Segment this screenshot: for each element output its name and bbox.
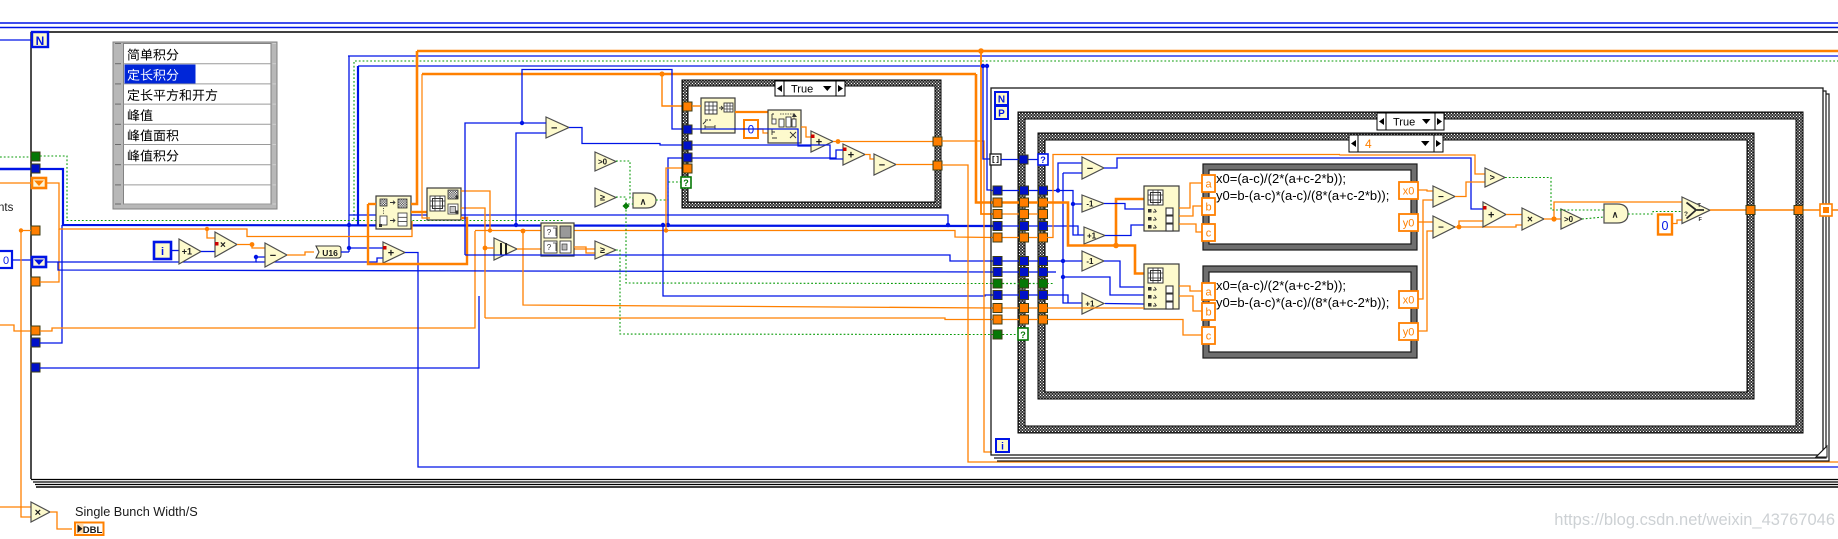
wire green and1 to case tunnel [656, 182, 682, 200]
svg-text:y0: y0 [1403, 327, 1415, 339]
node minus1 b [1082, 251, 1104, 271]
node increment +1 [179, 239, 201, 264]
wire blue r1 [1001, 159, 1038, 161]
junction [666, 223, 670, 227]
listbox item 1 [128, 49, 179, 61]
wire blue sub-r0 out y158 [1104, 158, 1483, 209]
svg-text:0: 0 [3, 255, 9, 267]
wire orange icon1 to c1 [1179, 224, 1202, 232]
icon decimate array [376, 196, 411, 229]
svg-text:?: ? [547, 228, 552, 237]
numeric constant 0 case1 [744, 120, 758, 138]
svg-text:×: × [35, 507, 41, 519]
wire orange tunnel282 up [40, 229, 59, 282]
wire orange subR1 out [1455, 182, 1485, 197]
coercion dot [215, 242, 219, 246]
junction [664, 228, 668, 232]
wire orange outside tunnel229 to multiply [21, 231, 31, 518]
case structure 3 border [1038, 133, 1754, 399]
case structure 1 border [682, 80, 941, 208]
outer while loop left border [30, 32, 32, 479]
iteration terminal i [154, 242, 171, 259]
wire blue v663 y296 [663, 225, 993, 296]
wire blue y215 [349, 215, 948, 225]
junction [1061, 275, 1065, 279]
case structure 3 selector label [1349, 135, 1443, 152]
node add case1 a [811, 131, 833, 152]
svg-text:True: True [791, 83, 813, 95]
wire blue tunnel145 to add-b [692, 145, 843, 159]
node subtract case1 c [874, 154, 896, 175]
svg-text:+: + [816, 136, 822, 148]
svg-text:∧: ∧ [1612, 210, 1619, 220]
wire blue long y270 [46, 262, 993, 272]
case1 selector terminal [681, 177, 691, 188]
wire orange dot up to plus [1459, 221, 1483, 227]
formula2 input b [1202, 303, 1215, 320]
junction [520, 121, 524, 125]
node subtract right2 [1433, 216, 1455, 238]
svg-text:?: ? [1684, 211, 1688, 218]
wire blue r5 internal [1047, 226, 1078, 235]
coercion dot [383, 246, 387, 250]
svg-text:U16: U16 [322, 248, 338, 258]
tunnel row r2 [991, 190, 1047, 192]
tunnel blue case1 in1 [683, 125, 692, 134]
indicator DBL [75, 523, 104, 536]
tunnel orange row331 [31, 326, 40, 335]
wire orange branch icon1 [1116, 199, 1144, 246]
wire blue v522 y70 case feed [522, 70, 683, 130]
wire orange r6 up y154 [1047, 155, 1340, 238]
iteration terminal i while2 [996, 439, 1009, 452]
node select [1682, 197, 1710, 224]
wire orange mid top [422, 73, 976, 76]
wire blue top second [358, 65, 987, 67]
case structure 2 border [1018, 112, 1803, 433]
wire green gte2 y334 [616, 250, 993, 335]
svg-text:N: N [998, 95, 1005, 106]
wire blue y255 long [465, 255, 993, 261]
wire green diamond down y283 [626, 206, 993, 284]
svg-text:0: 0 [1662, 219, 1669, 233]
svg-text:i: i [1001, 442, 1004, 453]
listbox item 4 [128, 109, 153, 121]
wire green r9 stub [1047, 283, 1053, 285]
wire blue branch minus1a [1073, 203, 1082, 205]
junction [514, 223, 518, 227]
svg-text:-1: -1 [1086, 199, 1094, 208]
node add case1 b [843, 144, 865, 165]
svg-text:+: + [848, 149, 854, 161]
formula1 output y0 [1399, 214, 1418, 231]
node minus1 a [1082, 195, 1104, 212]
listbox item 2 selected [128, 69, 179, 81]
svg-text:b: b [1205, 307, 1211, 319]
wire blue r8 internal [1047, 271, 1056, 273]
wire outer blue line 1 [0, 22, 1838, 24]
node wait II [494, 238, 517, 260]
wire orange x0_1 out [1418, 190, 1433, 191]
tunnel blue r1 case2 [1019, 155, 1028, 164]
node subtract right1 [1433, 186, 1455, 207]
tunnel blue [31, 164, 40, 173]
tunnel row r11 [991, 307, 1047, 309]
wire blue U16 to add [341, 251, 349, 253]
numeric constant 0 left [0, 251, 12, 268]
formula2 output x0 [1399, 291, 1418, 308]
case2 selector terminal [1018, 328, 1028, 340]
while2 array tunnel r1 [990, 154, 1001, 165]
wire blue r7 internal [1047, 260, 1063, 262]
node P label while2 [995, 106, 1008, 119]
wire orange iconA out1 up [411, 51, 417, 204]
wire blue add out down long [405, 253, 1838, 468]
node plus1 a [1084, 227, 1105, 244]
svg-text:−: − [879, 159, 885, 171]
svg-text:?: ? [683, 178, 689, 188]
svg-text:i: i [161, 246, 164, 258]
case structure 2 selector label [1377, 113, 1444, 130]
svg-text:c: c [1206, 331, 1212, 343]
wire blue to add left [349, 247, 383, 249]
formula2 input a [1202, 283, 1215, 300]
wire orange select out [1710, 209, 1838, 211]
junction [981, 64, 985, 68]
junction [1061, 259, 1065, 263]
wire blue i to +1 [171, 250, 179, 252]
icon index array case1 [701, 98, 735, 133]
svg-text:y0: y0 [1403, 218, 1415, 230]
wire orange into multiply [207, 229, 215, 238]
tunnel orange row229 [31, 226, 40, 235]
wire blue v1063 [1063, 172, 1082, 174]
junction [521, 229, 526, 234]
junction [488, 228, 492, 232]
wire orange y230 long [475, 231, 993, 238]
listbox selected row highlight [125, 65, 196, 84]
svg-text:nts: nts [0, 202, 14, 214]
wire orange cluster to gte2 [574, 247, 595, 253]
svg-text:>: > [1490, 173, 1495, 183]
while2 fold corner [1816, 446, 1827, 457]
wire orange iconB out3 thick [368, 204, 467, 264]
icon interpolate 1 [1144, 186, 1179, 231]
coercion dot [843, 148, 847, 152]
svg-text:≥: ≥ [600, 245, 605, 255]
wire orange case1out1 v984 [942, 141, 992, 452]
wire orange case1 tunnel to icon [692, 105, 701, 107]
while loop 2 shadow right 2 [997, 94, 1829, 461]
node plus1 b [1082, 293, 1104, 314]
wire blue v516 sub feed2 [516, 133, 546, 225]
svg-text:>0: >0 [598, 157, 608, 166]
svg-text:∧: ∧ [640, 197, 647, 207]
svg-text:a: a [1205, 287, 1212, 299]
wire orange subR2 out [1455, 226, 1459, 228]
wire orange v422 [422, 74, 430, 218]
tunnel blue case1 in3 [683, 153, 692, 162]
wire orange left entry [0, 325, 31, 331]
svg-text:×: × [220, 240, 226, 251]
tunnel blue row368 [31, 363, 40, 372]
node subtract r0 [1082, 157, 1104, 179]
node greater0 right [1561, 209, 1582, 229]
svg-text:−: − [1438, 223, 1444, 234]
and gate 1 [633, 193, 656, 208]
node add right [1483, 202, 1506, 227]
formula1 input b [1202, 198, 1215, 215]
junction [347, 246, 351, 250]
junction [254, 255, 258, 259]
wire orange II to gte [517, 248, 595, 250]
junction [1056, 188, 1060, 192]
wire orange v976 r3 [976, 74, 993, 203]
listbox frame [113, 42, 277, 209]
while2 indexing tunnel out [1820, 204, 1832, 216]
wire orange mult to DBL [50, 512, 72, 529]
svg-text:y0=b-(a-c)*(a-c)/(8*(a+c-2*b)): y0=b-(a-c)*(a-c)/(8*(a+c-2*b)); [1216, 188, 1389, 203]
svg-text:≥: ≥ [600, 193, 605, 203]
wire blue tunnel129 to add-a [692, 129, 811, 146]
tunnel row r10 [991, 294, 1047, 296]
enum constant orange [32, 178, 46, 188]
wire orange y318 [485, 318, 993, 320]
wire green gt right to and [1505, 178, 1604, 211]
wire orange iconB out2 [461, 208, 485, 318]
tunnel orange row282 [31, 277, 40, 286]
tunnel row r5 [991, 225, 1047, 227]
svg-text:P: P [998, 109, 1005, 120]
svg-text:?: ? [547, 243, 552, 252]
svg-text:+: + [1488, 209, 1494, 221]
wire blue plus1a to icon1 [1105, 225, 1144, 236]
svg-text:4: 4 [1365, 137, 1372, 151]
wire orange icon1 to a1 [1179, 183, 1202, 208]
tunnel orange case3 out [1746, 206, 1755, 215]
wire blue v465 sub feed [465, 123, 546, 255]
listbox item 3 [128, 89, 218, 101]
junction [978, 48, 984, 54]
junction [659, 71, 664, 76]
wire orange iconB out1 [461, 191, 490, 231]
wire orange sub-c out [896, 164, 933, 166]
wire blue top long [348, 55, 1838, 57]
junction [347, 223, 351, 227]
junction [1113, 243, 1119, 249]
conversion node U16 [316, 246, 341, 258]
tunnel row r4 [991, 213, 1047, 215]
junction [483, 246, 488, 251]
outer while loop top border [31, 31, 1838, 33]
listbox item 6 [128, 150, 179, 162]
junction [19, 228, 23, 232]
svg-text:>0: >0 [1564, 215, 1574, 224]
svg-text:−: − [270, 250, 276, 262]
wire orange enum path [46, 183, 412, 237]
enum constant blue [32, 257, 46, 267]
wire blue v1058 up [1058, 163, 1082, 191]
icon reshape array [427, 188, 461, 220]
formula1 input c [1202, 224, 1215, 241]
junction [205, 227, 209, 231]
wire blue long y368 [40, 296, 479, 368]
node gte 2 [595, 241, 616, 259]
wire orange icon1 to b1 [1179, 206, 1202, 216]
while loop 2 shadow right 1 [994, 91, 1826, 458]
tunnel blue case1 in2 [683, 141, 692, 150]
wire orange long y328 [40, 231, 475, 331]
wire blue r2 internal [1047, 191, 1084, 236]
listbox item 5 [128, 129, 179, 141]
and gate right [1604, 204, 1628, 223]
svg-text:?: ? [1020, 330, 1026, 340]
tunnel row r13 green [991, 334, 1018, 336]
wire blue y262 to add [256, 258, 383, 262]
junction [1457, 225, 1462, 230]
wire green gt0 right to and [1582, 217, 1604, 219]
tunnel row r12 [991, 319, 1047, 321]
junction [985, 64, 989, 68]
case3 selector terminal [1038, 154, 1048, 165]
wire orange into enum [0, 182, 31, 184]
tunnel row r7 [991, 260, 1047, 262]
wire orange v981 r4 [981, 51, 993, 214]
wire orange subtract to U16 [287, 252, 314, 255]
wire orange icon to waveform [735, 111, 768, 113]
svg-text:+: + [388, 247, 394, 259]
wire orange add-b to sub-c [865, 155, 874, 160]
while loop 2 border [991, 88, 1823, 455]
wire blue minus1b in [1063, 260, 1082, 262]
wire blue tunnel158 to add-b [692, 150, 843, 158]
node N terminal of outer loop [32, 32, 48, 47]
tunnel row r9 [991, 283, 1047, 285]
wire blue y225 branch tunnel158 [668, 158, 683, 225]
svg-text:x0: x0 [1403, 186, 1415, 198]
wire blue branch icon2 [1063, 277, 1144, 295]
wire orange v523 y305 [523, 231, 993, 309]
tunnel green [31, 152, 40, 161]
node greater right [1485, 168, 1505, 187]
wire blue branch to tunnel343 [40, 225, 62, 343]
wire blue vertical x349 [348, 56, 350, 252]
node multiply x [215, 232, 237, 257]
case structure 1 selector label [775, 81, 845, 96]
svg-text:x0: x0 [1403, 295, 1415, 307]
tunnel blue row343 [31, 338, 40, 347]
svg-text:x0=(a-c)/(2*(a+c-2*b));: x0=(a-c)/(2*(a+c-2*b)); [1216, 278, 1346, 293]
wire orange dot right to mult [1459, 225, 1522, 227]
wire blue minus1b to icon2 [1104, 261, 1144, 287]
junction [1551, 216, 1556, 221]
svg-text:×: × [1527, 215, 1533, 226]
svg-text:+1: +1 [1085, 299, 1095, 308]
junction [661, 223, 665, 227]
svg-text:0: 0 [748, 125, 754, 137]
svg-text:https://blog.csdn.net/weixin_4: https://blog.csdn.net/weixin_43767046 [1554, 511, 1835, 529]
junction [946, 223, 950, 227]
wire orange case1out2 v968 bottom long [942, 165, 1838, 462]
svg-text:−: − [1438, 192, 1444, 203]
svg-text:y0=b-(a-c)*(a-c)/(8*(a+c-2*b)): y0=b-(a-c)*(a-c)/(8*(a+c-2*b)); [1216, 295, 1389, 310]
wire orange iconA to iconB [411, 211, 427, 213]
wire blue plus1b to icon2 [1105, 303, 1144, 306]
tunnel orange case1 in [683, 102, 692, 111]
icon search array pair [541, 223, 574, 256]
node subtract [265, 243, 287, 267]
wire blue v983 r1 [983, 66, 990, 159]
wire orange tunnel168 feed [666, 168, 683, 231]
wire green vertical x354 [353, 62, 355, 221]
svg-text:b: b [1205, 202, 1211, 214]
formula2 input c [1202, 327, 1215, 344]
wire orange 0 to waveform [758, 129, 768, 133]
wire orange waveform to add1 [801, 127, 811, 137]
svg-text:c: c [1206, 228, 1212, 240]
numeric constant 0 right [1658, 215, 1672, 235]
wire orange v662 case feed [662, 74, 683, 106]
wire orange x0_2 up [1418, 200, 1433, 299]
svg-text:N: N [36, 34, 45, 48]
wire orange branch to select T [1554, 202, 1682, 219]
node multiply right [1522, 208, 1544, 230]
svg-text:?: ? [1040, 155, 1046, 165]
wire orange r11 to icon2 [1047, 307, 1144, 309]
junction [1071, 202, 1075, 206]
wire orange y154 to gt [1340, 155, 1485, 175]
outer while loop bottom stacked borders [31, 479, 1838, 481]
svg-text:True: True [1393, 116, 1415, 128]
tunnel row r6 [991, 237, 1047, 239]
wire orange plus to mult [1506, 214, 1522, 216]
tunnel orange case2 out [1794, 206, 1803, 215]
icon waveform attributes [768, 110, 801, 143]
wire outer blue line 2 [0, 27, 1838, 29]
svg-text:−: − [551, 122, 557, 134]
wire orange icon2 to a2 [1179, 286, 1202, 291]
wire blue thick into tunnel [0, 168, 31, 170]
node subtract upper [546, 117, 569, 138]
icon interpolate 2 [1144, 264, 1179, 309]
formula node 1 frame [1203, 164, 1417, 250]
wire orange icon2 to b2 [1179, 296, 1202, 311]
node greater than 0 [595, 152, 616, 171]
wire orange into multiply bottom [0, 506, 31, 508]
node gte 1 [595, 188, 616, 207]
formula2 output y0 [1399, 323, 1418, 340]
wire blue minus1a to icon1 [1104, 204, 1144, 210]
svg-text:+1: +1 [1087, 231, 1097, 240]
wire green gt0 to and [616, 161, 633, 198]
wire green dotted top long [355, 60, 1838, 62]
wire orange add-a out [833, 141, 933, 143]
wire green dotted long y220 [40, 156, 562, 226]
wire blue sub to case tunnel145 [569, 128, 683, 146]
wire orange into iconA [368, 203, 376, 205]
tunnel orange case1 in4 [683, 164, 692, 173]
formula node 2 frame [1203, 266, 1417, 358]
node add left [383, 242, 405, 263]
wire orange y0_1 out [1418, 221, 1433, 223]
svg-text:-1: -1 [1086, 257, 1094, 266]
svg-text:x0=(a-c)/(2*(a+c-2*b));: x0=(a-c)/(2*(a+c-2*b)); [1216, 171, 1346, 186]
tunnel row r8 [991, 271, 1047, 273]
coercion dot [811, 135, 815, 139]
wire orange r12 to c2 [1047, 320, 1202, 336]
wire green gte1 to and [616, 197, 633, 204]
wire blue y262 to subtract [58, 257, 265, 262]
